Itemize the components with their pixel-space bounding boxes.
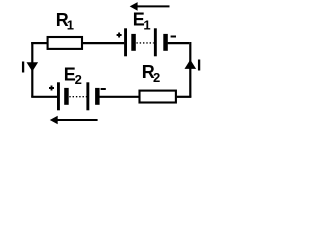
svg-text:2: 2 bbox=[75, 72, 82, 87]
battery E2 minus sign bbox=[101, 88, 106, 90]
battery E1 cell 2 short plate bbox=[163, 34, 168, 51]
label R1 bbox=[56, 10, 74, 33]
wire: top segment from R1 to E1 positive plate bbox=[83, 42, 124, 44]
wire: bottom-left segment from left corner to E2 bbox=[31, 96, 57, 98]
arrow: EMF direction arrow above E1 pointing left bbox=[130, 2, 170, 11]
battery E2 plus sign bbox=[49, 86, 54, 91]
label E2 bbox=[64, 64, 82, 87]
resistor R1 bbox=[48, 37, 82, 49]
battery E1 minus sign bbox=[171, 36, 176, 38]
battery E1 cell 2 long plate bbox=[154, 28, 157, 56]
svg-text:I: I bbox=[197, 57, 201, 74]
label E1 bbox=[133, 10, 151, 33]
battery E2 cell 1 short plate bbox=[64, 88, 69, 105]
battery E2 cell 2 short plate bbox=[95, 88, 100, 105]
battery E2 dotted link between cells bbox=[69, 96, 87, 98]
arrow: current direction down on left wire bbox=[27, 62, 39, 71]
battery E1 plus sign bbox=[117, 33, 122, 38]
battery E2 cell 1 long plate bbox=[57, 82, 60, 110]
svg-text:2: 2 bbox=[153, 70, 160, 85]
wire: top-left segment from left corner to R1 bbox=[31, 42, 47, 44]
label R2 bbox=[142, 62, 160, 85]
svg-text:1: 1 bbox=[143, 17, 150, 32]
arrow: current direction up on right wire bbox=[185, 60, 197, 69]
wire: right vertical wire bbox=[189, 42, 191, 97]
battery E1 cell 1 long plate bbox=[124, 28, 127, 56]
label I right bbox=[197, 57, 201, 74]
battery E1 dotted link between cells bbox=[136, 42, 153, 44]
resistor R2 bbox=[140, 91, 176, 103]
svg-text:I: I bbox=[21, 59, 25, 76]
battery E2 cell 2 long plate bbox=[86, 82, 89, 110]
wire: top-right segment from E1 to right corner bbox=[168, 42, 190, 44]
wire: bottom-right segment from R2 to right corner bbox=[177, 96, 192, 98]
wire: bottom segment from E2 to R2 bbox=[99, 96, 138, 98]
wire: left vertical wire bbox=[31, 42, 33, 97]
label I left bbox=[21, 59, 25, 76]
svg-text:1: 1 bbox=[67, 18, 74, 33]
battery E1 cell 1 short plate bbox=[131, 34, 136, 51]
arrow: EMF direction arrow below E2 pointing left bbox=[50, 116, 98, 125]
